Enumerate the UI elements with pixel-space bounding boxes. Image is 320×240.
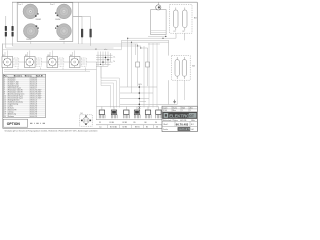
border frame top line — [12, 1, 197, 3]
title block top row — [162, 106, 197, 112]
svg-text:M1: M1 — [81, 113, 83, 115]
svg-text:R1: R1 — [174, 31, 176, 33]
svg-text:X2: X2 — [95, 49, 97, 51]
border frame right line — [196, 2, 198, 131]
svg-text:1: 1 — [190, 110, 191, 112]
heating element group B4 dashed box — [172, 56, 191, 81]
svg-text:S3: S3 — [47, 55, 49, 57]
svg-text:60.40.235: 60.40.235 — [30, 116, 37, 118]
energy regulator S3 — [47, 55, 64, 68]
svg-text:60.10.125: 60.10.125 — [30, 82, 37, 84]
footer text left — [5, 130, 98, 133]
terminal X5.3 — [123, 107, 130, 125]
svg-text:7: 7 — [4, 90, 5, 92]
svg-text:R2: R2 — [183, 31, 185, 33]
connector X1b — [12, 26, 14, 37]
wire bus above terminals — [97, 106, 159, 109]
legend table frame — [3, 74, 45, 117]
terminal row cell separators — [108, 125, 163, 129]
svg-text:9: 9 — [4, 94, 5, 96]
svg-text:58.00.123: 58.00.123 — [30, 102, 37, 104]
wire bundle to bottom connectors — [101, 66, 119, 108]
wire below X2 — [82, 37, 91, 45]
control unit A2 box — [151, 10, 167, 38]
svg-text:Sach-Nr.: Sach-Nr. — [36, 76, 44, 78]
svg-text:OPTION: OPTION — [7, 122, 21, 126]
title block frame — [162, 106, 197, 131]
svg-text:60.20.233 230V: 60.20.233 230V — [30, 92, 42, 94]
border frame left line — [2, 44, 4, 129]
svg-text:Bezeichn.: Bezeichn. — [14, 76, 23, 78]
terminal X5.2 — [110, 107, 118, 125]
svg-text:Benenn.: Benenn. — [25, 76, 33, 78]
heating element R4 — [182, 57, 186, 79]
svg-text:12: 12 — [4, 100, 6, 102]
svg-text:1-6: 1-6 — [99, 127, 102, 129]
wire below switch row — [4, 68, 97, 120]
svg-text:11: 11 — [4, 98, 6, 100]
svg-text:B5: B5 — [134, 122, 136, 124]
legend table row texts — [4, 77, 42, 118]
neutral rail junction dots — [120, 84, 157, 110]
svg-text:1: 1 — [4, 78, 5, 80]
title block middle rows — [162, 119, 197, 127]
svg-text:3: 3 — [4, 82, 5, 84]
svg-text:19: 19 — [4, 114, 6, 116]
svg-text:Zeichn.: Zeichn. — [163, 129, 169, 131]
svg-text:Kabelverschraubung: Kabelverschraubung — [8, 102, 23, 104]
junction dots cluster — [100, 57, 109, 65]
svg-text:16: 16 — [4, 108, 6, 110]
fan motor M1 dashed box — [80, 113, 92, 126]
wire below X1 — [6, 37, 13, 49]
svg-text:1: 1 — [182, 110, 183, 112]
svg-text:B2 B6: B2 B6 — [123, 127, 128, 129]
svg-text:Pos.1: Pos.1 — [18, 4, 23, 6]
svg-text:Bl. 1: Bl. 1 — [191, 124, 194, 126]
svg-text:60.40.231: 60.40.231 — [30, 108, 37, 110]
svg-text:Rahmen: Rahmen — [8, 116, 14, 118]
svg-text:60.10.126: 60.10.126 — [30, 84, 37, 86]
connector X2a — [81, 29, 83, 38]
svg-text:60.40.232: 60.40.232 — [30, 110, 37, 112]
legend table column lines — [8, 77, 30, 118]
label B3 — [194, 18, 197, 20]
svg-text:50Hz: 50Hz — [191, 120, 195, 122]
svg-text:1500W: 1500W — [26, 39, 32, 41]
legend table header — [3, 74, 45, 77]
svg-text:58.00.124: 58.00.124 — [30, 104, 37, 106]
energy regulator S1 — [2, 55, 19, 68]
hotplate E3 — [23, 24, 38, 42]
svg-text:58.00.119 400V: 58.00.119 400V — [30, 94, 42, 96]
svg-text:60.40.230: 60.40.230 — [30, 106, 37, 108]
svg-text:S1: S1 — [2, 55, 4, 57]
wire bus right section — [122, 36, 177, 44]
hob enclosure box A1 — [17, 3, 73, 42]
svg-text:B6: B6 — [145, 122, 147, 124]
svg-text:Erdungsklemme: Erdungsklemme — [8, 100, 20, 102]
svg-text:2: 2 — [4, 80, 5, 82]
terminal row bottom labels — [99, 126, 158, 129]
option dash-dot line — [30, 122, 45, 124]
svg-text:Klemme PE: Klemme PE — [8, 110, 16, 112]
wire right of hob box — [78, 2, 80, 44]
svg-text:8: 8 — [4, 92, 5, 94]
svg-text:6: 6 — [4, 88, 5, 90]
svg-text:Name: Name — [173, 107, 177, 109]
svg-text:17: 17 — [4, 110, 6, 112]
legend table row lines — [3, 77, 45, 115]
svg-text:12.00.454: 12.00.454 — [30, 80, 37, 82]
ground PE symbol — [173, 100, 176, 103]
heating element R1 — [174, 8, 179, 33]
plug X4 — [141, 48, 150, 86]
hotplate E2 — [55, 4, 71, 21]
svg-text:20: 20 — [4, 116, 6, 118]
terminal X5.4 — [134, 107, 141, 125]
svg-text:ELEKTRO: ELEKTRO — [169, 113, 190, 118]
border frame bottom line — [3, 127, 162, 129]
svg-text:2000W: 2000W — [36, 19, 42, 21]
energy regulator S4 — [69, 55, 86, 68]
svg-text:a b c: a b c — [104, 49, 108, 51]
svg-text:12.04.: 12.04. — [163, 110, 168, 112]
plug X3 — [136, 46, 140, 86]
svg-text:L1: L1 — [114, 57, 116, 59]
svg-text:58.00.117: 58.00.117 — [30, 88, 37, 90]
heating element R3 — [175, 57, 179, 79]
svg-text:S2: S2 — [25, 55, 27, 57]
svg-text:X6: X6 — [156, 127, 158, 129]
svg-text:18: 18 — [4, 112, 6, 114]
svg-text:5: 5 — [4, 86, 5, 88]
svg-text:B3 B1: B3 B1 — [135, 127, 140, 129]
svg-text:Heizkoerper 1500 W: Heizkoerper 1500 W — [8, 92, 23, 94]
svg-text:13: 13 — [4, 102, 6, 104]
signal lamp H1 — [156, 2, 161, 10]
svg-text:S4: S4 — [70, 55, 72, 57]
connector X2b — [90, 29, 92, 38]
label B4 — [192, 65, 195, 67]
svg-text:14: 14 — [4, 104, 6, 106]
energy regulator S2 — [25, 55, 42, 68]
hotplate E4 — [55, 24, 71, 42]
svg-text:10: 10 — [4, 96, 6, 98]
hotplate E1 — [23, 4, 41, 21]
svg-text:60.40.234: 60.40.234 — [30, 114, 37, 116]
svg-text:X5: X5 — [99, 122, 101, 124]
terminal X5.5 — [145, 107, 152, 125]
svg-text:Blatt 1: Blatt 1 — [164, 123, 169, 126]
heating element R2 — [183, 8, 188, 33]
svg-text:58.00.120 230V: 58.00.120 230V — [30, 96, 42, 98]
svg-text:GERAETE: GERAETE — [178, 127, 191, 131]
junction cluster X2 wires — [95, 49, 116, 66]
svg-text:X6: X6 — [155, 122, 157, 124]
svg-text:12.00.453: 12.00.453 — [30, 78, 37, 80]
connector X1a — [5, 26, 7, 37]
svg-text:Mue: Mue — [173, 110, 176, 112]
wire from X1 to top — [6, 2, 13, 26]
wire bus under hob — [3, 42, 141, 50]
wire B3 to B4 — [169, 33, 185, 104]
title block bottom logo — [163, 127, 194, 131]
wire switch row drops — [5, 51, 75, 57]
option box — [3, 119, 27, 127]
svg-text:Heizkoerper 2000 W: Heizkoerper 2000 W — [8, 90, 23, 92]
svg-text:1500W: 1500W — [55, 19, 61, 21]
wire above X2 — [73, 17, 91, 29]
svg-text:58.00.121 230V: 58.00.121 230V — [30, 98, 42, 100]
svg-text:Pos.2: Pos.2 — [50, 4, 55, 6]
svg-text:60.70.403: 60.70.403 — [176, 122, 189, 126]
svg-text:60.20.232 230V: 60.20.232 230V — [30, 90, 42, 92]
svg-text:55.30.222: 55.30.222 — [30, 86, 37, 88]
svg-text:4: 4 — [4, 84, 5, 86]
svg-text:Signallampe gn: Signallampe gn — [8, 86, 19, 88]
svg-text:60.40.233: 60.40.233 — [30, 112, 37, 114]
svg-text:B1 B4 A2: B1 B4 A2 — [110, 126, 117, 129]
wire switch links — [19, 62, 97, 70]
terminal row rail lines — [96, 120, 162, 125]
terminal X5.1 — [99, 107, 105, 125]
heating element group B3 dashed box — [170, 5, 192, 34]
wire B4 down — [177, 80, 184, 104]
svg-text:B5: B5 — [146, 127, 148, 129]
wire bottom right horizontal — [150, 104, 177, 106]
svg-text:Schaltplan gilt fuer Geraete a: Schaltplan gilt fuer Geraete ab Fertigun… — [5, 130, 98, 133]
terminal X5.6 — [155, 107, 162, 125]
svg-text:2000W: 2000W — [60, 39, 66, 41]
svg-text:B1 B4: B1 B4 — [110, 122, 115, 124]
wire right drops — [149, 43, 157, 108]
svg-text:B2 B3: B2 B3 — [123, 122, 128, 124]
svg-text:15: 15 — [4, 106, 6, 108]
manufacturer logo band — [162, 112, 197, 119]
svg-text:58.00.122: 58.00.122 — [30, 100, 37, 102]
wire corner drops mid — [122, 38, 145, 108]
